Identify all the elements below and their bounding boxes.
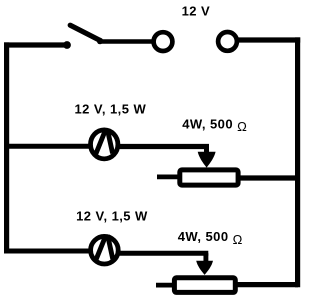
- wire left rail to lamp L2: [4, 248, 90, 253]
- wire top-left (battery rail to switch): [4, 42, 64, 47]
- wire wiper drop 1: [204, 147, 209, 155]
- lamp L1 body: [91, 130, 118, 159]
- switch S1 blade (open): [70, 25, 100, 40]
- lamp L2 filament right stroke: [108, 235, 113, 259]
- svg-text:4W, 500 Ω: 4W, 500 Ω: [178, 229, 243, 247]
- lamp L1 filament right stroke: [107, 129, 112, 153]
- lamp L2 filament left stroke: [96, 235, 107, 261]
- wire right terminal to right rail: [239, 37, 301, 42]
- right rail wire: [295, 37, 300, 287]
- svg-text:12 V, 1,5 W: 12 V, 1,5 W: [76, 209, 148, 224]
- left rail wire: [4, 42, 9, 253]
- svg-text:12 V, 1,5 W: 12 V, 1,5 W: [75, 102, 147, 117]
- wire switch to left terminal: [98, 39, 153, 44]
- rheostat P1 wiper arrow: [198, 152, 216, 168]
- wire rheostat P2 to right rail: [237, 282, 298, 287]
- svg-text:12 V: 12 V: [182, 4, 211, 19]
- rheostat P2 wiper arrow: [196, 261, 213, 275]
- lamp L2 body: [91, 236, 119, 264]
- rheostat P1 left stub wire: [157, 175, 179, 180]
- lamp L1 filament left stroke: [95, 129, 106, 155]
- wire lamp L1 to rheostat wiper: [119, 144, 209, 149]
- wire lamp L2 to rheostat wiper: [119, 251, 208, 256]
- rheostat P1 body 4W 500 ohm: [180, 170, 238, 185]
- svg-text:4W, 500 Ω: 4W, 500 Ω: [182, 116, 247, 134]
- rheostat P2 left stub wire: [156, 283, 173, 288]
- wire wiper drop 2: [203, 253, 208, 262]
- rheostat P2 body 4W 500 ohm: [174, 278, 235, 293]
- wire rheostat P1 to right rail: [240, 175, 298, 180]
- terminal circle left (12 V source +): [154, 32, 173, 51]
- switch S1 pivot contact dot: [63, 41, 71, 49]
- terminal circle right (12 V source -): [218, 32, 237, 51]
- wire left rail to lamp L1: [4, 144, 90, 149]
- switch S1 hinge dot: [97, 38, 103, 44]
